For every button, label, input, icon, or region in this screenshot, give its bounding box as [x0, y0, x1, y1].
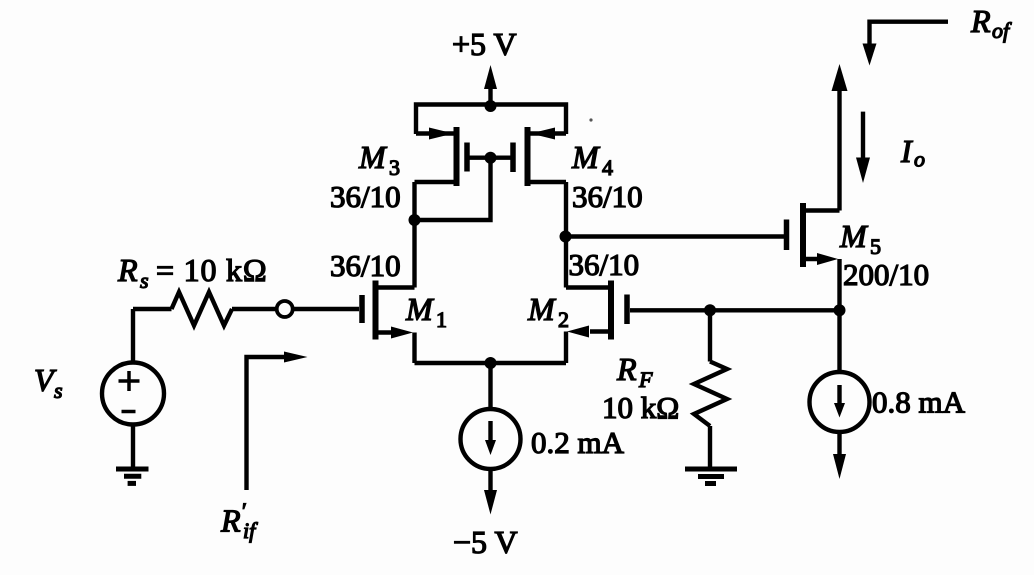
- label 0.2 mA: [531, 425, 625, 460]
- svg-text:R: R: [220, 503, 241, 539]
- label 10 kOhm (RF): [602, 390, 679, 425]
- svg-text:M: M: [527, 291, 557, 327]
- node: M5 source junction: [834, 304, 846, 316]
- label 36/10 (M2): [569, 247, 640, 282]
- label 0.8 mA: [872, 385, 966, 420]
- svg-text:0.8 mA: 0.8 mA: [872, 385, 966, 420]
- label M5: [839, 218, 881, 259]
- svg-text:R: R: [970, 3, 991, 39]
- node: M3 drain junction: [409, 214, 421, 226]
- label RF: [616, 351, 653, 392]
- svg-text:200/10: 200/10: [843, 257, 929, 292]
- svg-text:36/10: 36/10: [569, 247, 640, 282]
- wire: +5V supply rail: [416, 105, 566, 135]
- label Rs = 10 kOhm: [117, 252, 267, 293]
- label M4: [571, 139, 613, 180]
- arrow Io (output current): [856, 112, 870, 183]
- label 36/10 (M4): [572, 179, 643, 214]
- label +5 V: [452, 26, 517, 62]
- wire: M1 gate lead: [293, 307, 360, 311]
- svg-text:1: 1: [436, 307, 447, 332]
- label Vs: [34, 362, 63, 403]
- svg-text:5: 5: [870, 234, 881, 259]
- svg-text:−5 V: −5 V: [453, 524, 518, 560]
- current source 0.8 mA: [810, 372, 870, 479]
- wire: common source rail: [415, 361, 567, 365]
- svg-text:36/10: 36/10: [330, 248, 401, 283]
- current source 0.2 mA: [461, 409, 521, 515]
- wire: M2 gate to feedback node: [630, 308, 840, 312]
- svg-text:+5 V: +5 V: [452, 26, 517, 62]
- svg-text:4: 4: [602, 155, 613, 180]
- svg-text:M: M: [571, 139, 601, 175]
- svg-text:0.2 mA: 0.2 mA: [531, 425, 625, 460]
- label 200/10: [843, 257, 929, 292]
- label -5 V: [453, 524, 518, 560]
- svg-text:36/10: 36/10: [330, 179, 401, 214]
- label M3: [358, 139, 400, 180]
- wire: M5 source to 0.8mA source: [837, 310, 841, 372]
- wire: M4 drain to M2 drain: [564, 182, 568, 288]
- node: input terminal open circle: [277, 301, 293, 317]
- transistor M2 (NMOS): [566, 281, 627, 364]
- svg-text:if: if: [243, 518, 258, 543]
- node: gate tie dot: [485, 152, 497, 164]
- +5 V supply arrow: [484, 65, 497, 105]
- svg-text:= 10 kΩ: = 10 kΩ: [156, 252, 267, 288]
- node: RF top junction: [704, 304, 716, 316]
- scan speck: [589, 118, 592, 121]
- svg-text:2: 2: [558, 307, 569, 332]
- label Rof: [970, 3, 1012, 43]
- svg-text:s: s: [140, 268, 149, 293]
- label 36/10 (M3): [330, 179, 401, 214]
- wire: M3 drain to M1 drain: [412, 182, 416, 288]
- transistor M3 (PMOS): [415, 127, 468, 186]
- svg-text:F: F: [638, 367, 653, 392]
- svg-text:3: 3: [389, 155, 400, 180]
- node: +5V tap dot: [485, 100, 497, 112]
- node: common source dot: [485, 357, 497, 369]
- wire: common source to bias source: [488, 363, 492, 410]
- label 36/10 (M1): [330, 248, 401, 283]
- transistor M1 (NMOS): [362, 281, 415, 364]
- svg-text:10 kΩ: 10 kΩ: [602, 390, 679, 425]
- wire: gate-to-drain diode connection of M3: [415, 158, 491, 220]
- transistor M5 (NMOS): [787, 203, 840, 310]
- resistor RF: [694, 310, 727, 467]
- label M2: [527, 291, 569, 332]
- node: M4 drain junction: [560, 231, 572, 243]
- arrow Rof (output resistance looking down): [863, 22, 949, 66]
- wire: M5 drain output line with arrow: [832, 64, 848, 211]
- svg-text:36/10: 36/10: [572, 179, 643, 214]
- wire: M4 drain node to M5 gate: [566, 234, 785, 238]
- ground (Vs): [116, 469, 149, 483]
- svg-text:M: M: [358, 139, 388, 175]
- resistor Rs: [133, 292, 277, 326]
- label Io: [900, 133, 925, 172]
- svg-text:R: R: [616, 351, 637, 387]
- arrow R'if (input resistance): [247, 352, 308, 491]
- svg-text:R: R: [117, 252, 138, 288]
- wire: M3-M4 gate tie: [467, 155, 513, 159]
- source Vs (voltage source): [102, 309, 164, 469]
- label R'if: [220, 498, 258, 543]
- transistor M4 (PMOS): [513, 127, 566, 186]
- svg-text:of: of: [992, 18, 1012, 43]
- svg-text:o: o: [914, 147, 925, 172]
- svg-text:I: I: [900, 133, 913, 169]
- svg-text:s: s: [54, 378, 63, 403]
- svg-text:M: M: [405, 291, 435, 327]
- svg-text:M: M: [839, 218, 869, 254]
- label M1: [405, 291, 447, 332]
- ground (RF): [685, 469, 737, 484]
